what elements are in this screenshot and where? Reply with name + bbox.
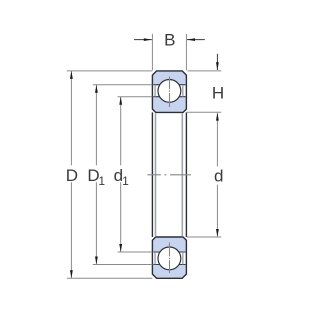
dimension B: right arrow line [187, 39, 205, 41]
dimension d1: top extension line [118, 96, 153, 98]
dimension H: top arrowhead (down) [216, 62, 219, 70]
upper gap left chamfer line [154, 85, 156, 97]
dimension D1: vertical line lower part [95, 182, 97, 264]
dimension B: left arrowhead [144, 38, 152, 41]
dimension B: right extension line [185, 34, 187, 70]
dimension D1: vertical line upper part [95, 85, 97, 165]
lower ball vertical centerline (dash-dot) [169, 243, 171, 274]
dimension H: bottom extension line [187, 111, 221, 113]
upper gap bottom line [153, 96, 185, 98]
dimension D: bottom arrowhead (down) [70, 270, 73, 278]
dimension d1: vertical line upper part [120, 97, 122, 165]
dimension H: top extension line [188, 70, 222, 72]
dimension B: right arrowhead [187, 38, 195, 41]
dimension D: vertical line lower part [70, 182, 72, 278]
dimension D1: bottom arrowhead (down) [95, 257, 98, 265]
dimension d1: bottom arrowhead (down) [119, 244, 122, 252]
dimension d: vertical line upper part [216, 113, 218, 166]
dimension D1: top arrowhead (up) [95, 85, 98, 93]
lower gap left chamfer line [154, 252, 156, 264]
dimension d1: top arrowhead (up) [119, 97, 122, 105]
lower gap bottom line [153, 264, 185, 266]
upper raceway gap band (white) [153, 85, 185, 96]
bore silhouette right line [185, 112, 187, 237]
dimension d1: bottom extension line [118, 251, 153, 253]
dimension d: top arrowhead (up) [216, 113, 219, 121]
upper gap right chamfer line [182, 85, 184, 97]
horizontal axis centerline (dash-dot) [147, 174, 191, 176]
svg-text:D: D [66, 166, 78, 185]
svg-text:1: 1 [98, 174, 105, 188]
dimension D: top extension line [67, 70, 153, 72]
ball upper [158, 80, 181, 103]
dimension D1: bottom extension line [93, 264, 153, 266]
dimension H: top arrow line [216, 54, 218, 70]
dimension d1: vertical line lower part [120, 182, 122, 252]
upper gap top line [153, 84, 185, 86]
dimension D: top arrowhead (up) [70, 71, 73, 79]
upper ball vertical centerline (dash-dot) [169, 77, 171, 108]
dimension D: bottom extension line [67, 277, 152, 279]
dimension D1: top extension line [93, 84, 153, 86]
svg-text:d: d [214, 167, 223, 186]
svg-text:H: H [212, 83, 224, 102]
ball lower [158, 247, 181, 270]
svg-text:B: B [164, 30, 175, 49]
dimension B: left extension line [151, 34, 153, 70]
dimension d: vertical line lower part [216, 185, 218, 237]
bore chamfer left line (gray) [155, 113, 157, 236]
lower gap top line [153, 251, 185, 253]
dimension d: bottom extension line [187, 236, 221, 238]
svg-text:1: 1 [122, 174, 129, 188]
bore chamfer right line (gray) [181, 113, 183, 236]
dimension D: vertical line upper part [70, 71, 72, 165]
dimension B: left arrow line [134, 39, 152, 41]
bore silhouette left line [151, 112, 153, 237]
lower raceway gap band (white) [153, 253, 185, 264]
bearing lower ring section (blue) [152, 237, 186, 278]
bearing upper ring section (outer+inner ring, blue) [152, 71, 186, 113]
dimension d: bottom arrowhead (down) [216, 229, 219, 237]
lower gap right chamfer line [182, 252, 184, 264]
